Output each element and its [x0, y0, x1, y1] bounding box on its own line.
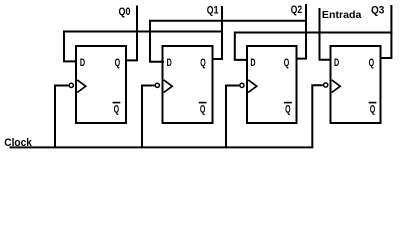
svg-text:Q2: Q2: [291, 4, 302, 16]
svg-text:Q0: Q0: [119, 6, 131, 18]
svg-text:D: D: [167, 57, 172, 69]
svg-text:Q: Q: [370, 104, 376, 116]
svg-text:D: D: [250, 57, 255, 69]
svg-text:Q: Q: [285, 104, 291, 116]
svg-text:Q: Q: [284, 57, 290, 69]
svg-text:Q: Q: [115, 57, 121, 69]
svg-text:Q1: Q1: [207, 4, 219, 16]
svg-text:Q: Q: [200, 57, 206, 69]
svg-text:Clock: Clock: [4, 137, 32, 149]
svg-text:Q: Q: [200, 104, 206, 116]
svg-text:Q3: Q3: [371, 4, 384, 16]
svg-text:Q: Q: [114, 104, 120, 116]
svg-text:Q: Q: [369, 57, 375, 69]
svg-text:Entrada: Entrada: [322, 9, 362, 21]
svg-text:D: D: [334, 57, 339, 69]
svg-text:D: D: [80, 57, 85, 69]
